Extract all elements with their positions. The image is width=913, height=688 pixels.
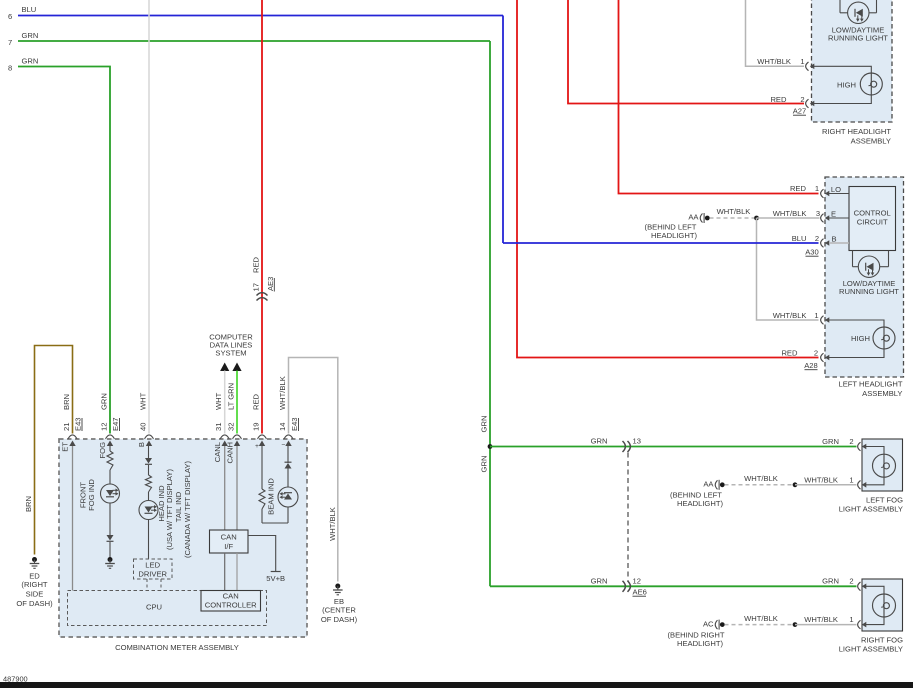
pin 31 connector CANL <box>220 435 229 439</box>
svg-text:32: 32 <box>227 423 236 431</box>
junction E net <box>754 216 759 221</box>
wire FOG internal upper <box>109 446 111 451</box>
svg-text:OF DASH): OF DASH) <box>16 599 53 608</box>
svg-text:GRN: GRN <box>480 416 489 433</box>
svg-text:AA: AA <box>703 480 714 489</box>
connector left headlight pin 2 B A30 <box>821 239 824 248</box>
svg-text:BLU: BLU <box>792 234 807 243</box>
svg-text:RED: RED <box>252 256 261 273</box>
svg-text:ASSEMBLY: ASSEMBLY <box>851 137 891 146</box>
svg-text:7: 7 <box>8 38 12 47</box>
bulb HIGH right <box>860 73 882 95</box>
svg-text:ET: ET <box>61 442 70 452</box>
svg-text:A30: A30 <box>805 248 819 257</box>
combination meter assembly box <box>59 439 307 637</box>
svg-text:WHT/BLK: WHT/BLK <box>744 614 778 623</box>
wire beam + internal <box>261 446 263 489</box>
svg-text:AA: AA <box>688 213 699 222</box>
svg-text:HEADLIGHT): HEADLIGHT) <box>651 231 697 240</box>
wire CANL internal <box>224 446 226 530</box>
svg-text:CIRCUIT: CIRCUIT <box>857 218 888 227</box>
svg-text:1: 1 <box>800 57 804 66</box>
wire CAN I/F to CAN controller CANL <box>224 553 226 591</box>
resistor front fog ind <box>107 451 113 470</box>
svg-text:RED: RED <box>252 393 261 410</box>
svg-text:12: 12 <box>633 577 641 586</box>
pin 21 connector ET <box>68 435 77 439</box>
svg-text:SYSTEM: SYSTEM <box>215 349 246 358</box>
wire RED to right headlight connector 2 A27 <box>568 0 804 104</box>
svg-text:WHT/BLK: WHT/BLK <box>773 311 807 320</box>
svg-text:B: B <box>137 442 146 447</box>
ground internal front fog <box>108 557 113 562</box>
svg-text:WHT: WHT <box>214 392 223 410</box>
svg-text:HIGH: HIGH <box>851 334 870 343</box>
wire high beam left internal lower <box>829 349 884 358</box>
wire WHT/BLK junction to connector E <box>757 217 820 219</box>
svg-text:RUNNING LIGHT: RUNNING LIGHT <box>828 34 888 43</box>
svg-text:WHT: WHT <box>139 392 148 410</box>
svg-text:LT GRN: LT GRN <box>227 383 236 410</box>
svg-text:BLU: BLU <box>22 5 37 14</box>
svg-text:HEADLIGHT): HEADLIGHT) <box>677 499 723 508</box>
svg-text:GRN: GRN <box>22 57 39 66</box>
control circuit U1 box <box>849 187 896 251</box>
svg-text:17: 17 <box>252 283 261 291</box>
svg-text:12: 12 <box>100 423 109 431</box>
svg-text:31: 31 <box>214 423 223 431</box>
wire 7 GRN horizontal <box>18 40 490 42</box>
resistor head ind <box>146 475 152 492</box>
right headlight assembly box <box>812 0 893 122</box>
bulb left fog light <box>873 454 896 477</box>
svg-text:LIGHT ASSEMBLY: LIGHT ASSEMBLY <box>839 645 903 654</box>
wire high beam right internal lower <box>814 95 871 104</box>
wire <box>109 470 111 484</box>
svg-text:8: 8 <box>8 64 12 73</box>
connector right fog pin 1 <box>858 620 861 629</box>
wire high beam left internal <box>829 320 884 327</box>
wire <box>287 469 289 488</box>
svg-text:GRN: GRN <box>100 393 109 410</box>
svg-text:1: 1 <box>849 615 853 624</box>
resistor beam ind <box>259 489 265 509</box>
svg-text:WHT/BLK: WHT/BLK <box>717 207 751 216</box>
pin 12 connector FOG <box>106 435 115 439</box>
svg-text:2: 2 <box>814 349 818 358</box>
pin 19 connector + <box>258 435 267 439</box>
arrow to computer data lines CANH <box>232 363 241 372</box>
junction left fog ground net <box>793 482 798 487</box>
svg-text:B: B <box>831 235 836 244</box>
wire BRN from ED ground to pin 21 <box>35 346 73 555</box>
low/daytime running light LED right <box>848 2 869 23</box>
wire <box>287 507 289 523</box>
svg-text:AE3: AE3 <box>266 277 275 291</box>
wire RED to left headlight connector 1 LO <box>619 0 819 194</box>
wire 5V+B <box>248 536 276 572</box>
wire 6 BLU horizontal <box>18 15 503 17</box>
ground EB <box>335 584 340 589</box>
svg-text:21: 21 <box>62 423 71 431</box>
connector 13 inline on left fog GRN wire <box>623 441 626 452</box>
head ind LED <box>139 501 158 520</box>
wire WHT/BLK junction to left fog connector 1 <box>795 484 857 486</box>
wire <box>148 492 150 501</box>
svg-text:COMBINATION METER ASSEMBLY: COMBINATION METER ASSEMBLY <box>115 643 239 652</box>
wire GRN vertical trunk to fog lights <box>489 41 491 586</box>
svg-text:RIGHT FOG: RIGHT FOG <box>861 636 903 645</box>
svg-text:BEAM IND: BEAM IND <box>267 478 276 515</box>
svg-text:HIGH: HIGH <box>837 81 856 90</box>
right fog light assembly box <box>862 579 903 631</box>
connector right headlight pin 2 A27 <box>806 99 809 108</box>
svg-text:2: 2 <box>849 577 853 586</box>
connector AE3 pin 17 inline on RED wire <box>257 293 268 296</box>
svg-text:AC: AC <box>703 619 714 628</box>
pin 14 connector - <box>284 435 293 439</box>
wire CANL WHT to pin 31 <box>224 371 226 434</box>
svg-text:WHT/BLK: WHT/BLK <box>328 507 337 541</box>
wire BLU horizontal to connector B A30 <box>503 242 819 244</box>
LED driver to CPU stubs <box>146 579 148 591</box>
wire CAN I/F to CAN controller CANH <box>236 553 238 591</box>
svg-text:CAN: CAN <box>223 592 239 601</box>
left fog light assembly box <box>862 439 903 491</box>
junction right fog ground net <box>793 622 798 627</box>
wire B internal upper <box>148 446 150 458</box>
wire 8 GRN to combination meter pin 12 <box>18 67 110 434</box>
wire WHT/BLK dashed AA to junction <box>710 217 755 219</box>
diode front fog <box>107 535 114 541</box>
left headlight assembly box <box>825 177 904 377</box>
wire CANH internal <box>236 446 238 530</box>
diode head ind <box>145 458 152 464</box>
svg-text:1: 1 <box>849 475 853 484</box>
wire WHT/BLK pin 14 to EB ground <box>289 358 338 582</box>
wire WHT/BLK to right headlight connector 1 <box>746 0 805 66</box>
svg-text:SIDE: SIDE <box>26 590 44 599</box>
svg-text:BRN: BRN <box>24 496 33 512</box>
diode beam ind <box>285 463 292 469</box>
connector left headlight pin 2 A28 <box>821 353 824 362</box>
low/daytime running light LED right - wires <box>839 0 841 13</box>
svg-text:−: − <box>282 442 286 449</box>
svg-text:LEFT FOG: LEFT FOG <box>866 496 903 505</box>
svg-text:WHT/BLK: WHT/BLK <box>804 475 838 484</box>
svg-text:CANH: CANH <box>225 442 234 464</box>
connector left headlight high pin 1 <box>821 316 824 325</box>
wire GRN to left fog light <box>490 446 857 448</box>
wire RED to left headlight connector 2 A28 <box>517 0 819 358</box>
svg-text:I/F: I/F <box>224 542 233 551</box>
svg-text:RED: RED <box>770 95 787 104</box>
svg-text:E: E <box>831 210 836 219</box>
svg-text:GRN: GRN <box>822 437 839 446</box>
svg-text:CANL: CANL <box>213 442 222 462</box>
CPU box <box>68 591 267 626</box>
svg-text:FOG: FOG <box>98 442 107 459</box>
low/daytime running light LED left - wires <box>852 251 854 267</box>
svg-text:LEFT HEADLIGHT: LEFT HEADLIGHT <box>839 380 903 389</box>
junction fog feed <box>488 444 493 449</box>
svg-text:A28: A28 <box>804 361 818 370</box>
svg-text:GRN: GRN <box>591 437 608 446</box>
svg-text:1: 1 <box>815 184 819 193</box>
wire left fog internal lower <box>866 477 884 485</box>
svg-text:GRN: GRN <box>22 31 39 40</box>
pin 32 connector CANH <box>233 435 242 439</box>
wire CANH LT GRN to pin 32 <box>236 371 238 434</box>
bulb HIGH left <box>873 327 895 349</box>
svg-text:E43: E43 <box>290 417 299 431</box>
wire left fog internal upper <box>866 447 884 455</box>
svg-text:LIGHT ASSEMBLY: LIGHT ASSEMBLY <box>839 505 903 514</box>
svg-text:(RIGHT: (RIGHT <box>21 580 48 589</box>
connector right headlight pin 1 <box>806 62 809 71</box>
wire beam + lower <box>261 509 263 523</box>
wire GRN to right fog light <box>490 585 857 587</box>
wire right fog internal lower <box>866 617 884 625</box>
beam ind LED <box>278 487 298 507</box>
svg-text:DRIVER: DRIVER <box>138 570 167 579</box>
svg-text:WHT/BLK: WHT/BLK <box>757 57 791 66</box>
low/daytime running light LED left <box>858 256 879 277</box>
svg-text:AE6: AE6 <box>633 588 647 597</box>
svg-text:40: 40 <box>139 423 148 431</box>
footer bar <box>0 682 913 688</box>
CAN controller box <box>201 591 261 612</box>
svg-text:CPU: CPU <box>146 603 162 612</box>
wire WHT/BLK junction down to high-beam connector 1 <box>757 218 819 320</box>
svg-text:E43: E43 <box>74 417 83 431</box>
wire head ind to LED driver <box>148 520 150 560</box>
wire beam - internal <box>287 446 289 463</box>
arrow to computer data lines CANL <box>220 363 229 372</box>
wire WHT/BLK dashed AC to junction right fog <box>725 624 793 626</box>
svg-text:+: + <box>255 443 259 450</box>
svg-text:WHT/BLK: WHT/BLK <box>278 376 287 410</box>
wire high beam right internal <box>814 66 871 73</box>
wire beam bottom link <box>262 522 288 524</box>
svg-text:2: 2 <box>800 95 804 104</box>
svg-text:LO: LO <box>831 185 841 194</box>
svg-text:GRN: GRN <box>822 577 839 586</box>
svg-text:E47: E47 <box>111 417 120 431</box>
svg-text:2: 2 <box>815 234 819 243</box>
dashed link between connectors 13 and 12 <box>627 453 629 581</box>
svg-text:1: 1 <box>814 311 818 320</box>
wire <box>148 465 150 475</box>
svg-text:19: 19 <box>252 423 261 431</box>
connector left headlight pin 1 LO <box>821 189 824 198</box>
svg-text:(USA W/ TFT DISPLAY): (USA W/ TFT DISPLAY) <box>165 469 174 550</box>
wire BLU vertical to left headlight <box>502 16 504 244</box>
svg-text:BRN: BRN <box>62 394 71 410</box>
svg-text:2: 2 <box>849 437 853 446</box>
svg-text:RED: RED <box>781 349 798 358</box>
svg-text:GRN: GRN <box>480 456 489 473</box>
svg-text:LED: LED <box>145 561 160 570</box>
svg-text:(CANADA W/ TFT DISPLAY): (CANADA W/ TFT DISPLAY) <box>183 461 192 559</box>
svg-text:6: 6 <box>8 12 12 21</box>
svg-text:RUNNING LIGHT: RUNNING LIGHT <box>839 287 899 296</box>
wire WHT/BLK dashed AA to junction left fog <box>725 484 793 486</box>
svg-text:3: 3 <box>816 209 820 218</box>
svg-text:WHT/BLK: WHT/BLK <box>804 615 838 624</box>
wire <box>109 503 111 535</box>
wire WHT vertical to combination meter pin 40 <box>148 0 150 434</box>
svg-text:ASSEMBLY: ASSEMBLY <box>862 389 902 398</box>
svg-text:WHT/BLK: WHT/BLK <box>744 474 778 483</box>
wire ET internal <box>72 446 74 591</box>
ground ED <box>32 557 37 562</box>
LED driver box <box>134 559 173 579</box>
CAN I/F box <box>210 530 249 553</box>
svg-text:RED: RED <box>790 184 807 193</box>
svg-text:HEADLIGHT): HEADLIGHT) <box>677 639 723 648</box>
svg-text:CAN: CAN <box>221 533 237 542</box>
connector left headlight pin 3 E <box>821 214 824 223</box>
pin 40 connector B <box>145 435 154 439</box>
svg-text:5V+B: 5V+B <box>266 574 285 583</box>
svg-text:GRN: GRN <box>591 577 608 586</box>
svg-text:CONTROL: CONTROL <box>854 209 891 218</box>
connector 12 inline AE6 on right fog GRN wire <box>623 581 626 592</box>
front fog ind LED <box>101 484 120 503</box>
wire WHT/BLK junction to right fog connector 1 <box>795 624 857 626</box>
svg-text:(CENTER: (CENTER <box>322 606 356 615</box>
bulb right fog light <box>873 594 896 617</box>
svg-text:13: 13 <box>633 437 641 446</box>
svg-text:14: 14 <box>278 423 287 431</box>
wire <box>109 542 111 557</box>
connector left fog pin 2 GRN <box>858 442 861 451</box>
svg-text:FOG IND: FOG IND <box>87 479 96 511</box>
wire right fog internal upper <box>866 586 884 594</box>
svg-text:OF DASH): OF DASH) <box>321 615 358 624</box>
wire RED vertical to combination meter pin 19 <box>261 0 263 434</box>
svg-text:TAIL IND: TAIL IND <box>174 491 183 522</box>
connector left fog pin 1 <box>858 481 861 490</box>
svg-text:A27: A27 <box>793 107 807 116</box>
svg-text:CONTROLLER: CONTROLLER <box>205 601 257 610</box>
connector right fog pin 2 GRN <box>858 582 861 591</box>
svg-text:WHT/BLK: WHT/BLK <box>773 209 807 218</box>
svg-text:RIGHT HEADLIGHT: RIGHT HEADLIGHT <box>822 127 891 136</box>
